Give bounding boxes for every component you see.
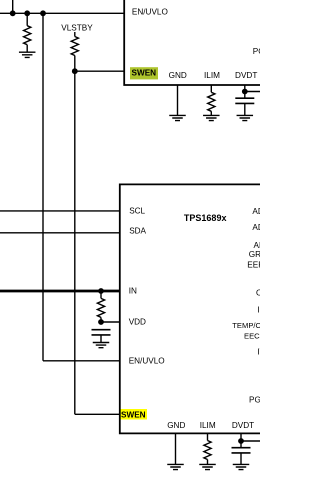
svg-text:OU: OU: [256, 289, 260, 298]
svg-text:PG: PG: [249, 395, 260, 404]
svg-text:IT: IT: [257, 348, 260, 357]
svg-text:IN: IN: [129, 287, 137, 296]
svg-text:EN/UVLO: EN/UVLO: [132, 8, 168, 17]
svg-text:ADR: ADR: [252, 207, 260, 216]
svg-text:AD: AD: [254, 241, 261, 250]
svg-text:TPS1689x: TPS1689x: [184, 213, 227, 223]
svg-text:DVDT: DVDT: [232, 421, 254, 430]
svg-text:ILIM: ILIM: [200, 421, 216, 430]
svg-text:ILIM: ILIM: [204, 71, 220, 80]
svg-text:PG: PG: [253, 47, 260, 56]
svg-text:EN/UVLO: EN/UVLO: [129, 356, 165, 365]
svg-text:EEC: EEC: [244, 332, 260, 341]
svg-text:EEP: EEP: [247, 260, 260, 269]
svg-text:SWEN: SWEN: [121, 410, 146, 419]
svg-text:TEMP/C: TEMP/C: [232, 321, 260, 330]
svg-text:GND: GND: [169, 71, 187, 80]
svg-text:VDD: VDD: [129, 317, 146, 326]
svg-text:VLSTBY: VLSTBY: [61, 24, 93, 33]
svg-text:GRP: GRP: [249, 250, 260, 259]
svg-text:SCL: SCL: [129, 206, 145, 215]
svg-text:GND: GND: [167, 421, 185, 430]
svg-text:SWEN: SWEN: [132, 68, 157, 77]
svg-text:SDA: SDA: [129, 227, 146, 236]
svg-text:IM: IM: [257, 306, 260, 315]
svg-text:DVDT: DVDT: [235, 71, 257, 80]
svg-text:ADR: ADR: [252, 223, 260, 232]
